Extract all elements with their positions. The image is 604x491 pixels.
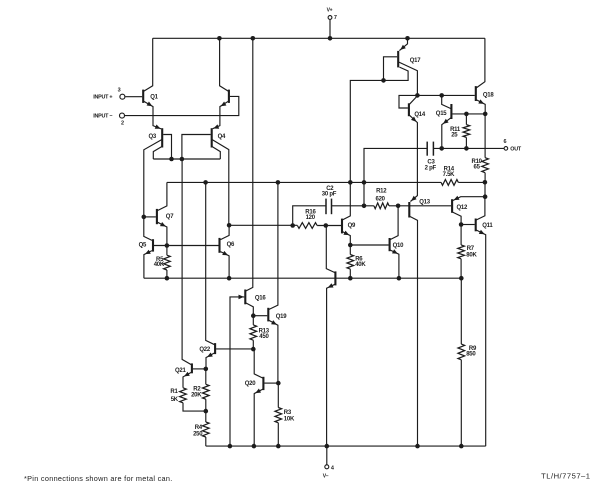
resistor R14	[441, 180, 458, 186]
wire Q16 emitter input loop	[230, 297, 244, 446]
transistor Q11	[475, 219, 477, 232]
terminal V- pin 4	[326, 446, 328, 465]
junction dot top rail / V+ terminal	[328, 36, 333, 41]
wire Q10 collector	[390, 206, 398, 240]
junction dot Q6 emitter / rail278	[227, 276, 232, 281]
wire C2 left branch	[293, 206, 326, 226]
svg-text:V−: V−	[323, 474, 329, 480]
svg-text:TL/H/7757–1: TL/H/7757–1	[541, 472, 590, 481]
wire Q4 base loop	[182, 135, 211, 160]
junction dot R3 / bottom rail	[276, 444, 281, 449]
wire INPUT- to Q2 base	[125, 96, 239, 115]
wire Q6 emitter	[221, 252, 230, 279]
wire Q19 collector to bus	[269, 182, 278, 309]
junction dot Q16 loop / bottom rail	[228, 444, 233, 449]
junction dot Q9 emitter / R6 / Q10 base	[348, 243, 353, 248]
svg-text:C3: C3	[427, 159, 435, 165]
wire Q9 emitter	[343, 232, 351, 245]
junction dot bus / Q9 collector	[348, 180, 353, 185]
svg-text:40K: 40K	[154, 262, 165, 268]
wire Q2 emitter to Q4	[213, 101, 229, 129]
wire Q5/Q6 base wire	[154, 245, 219, 247]
terminal V+ pin 7	[329, 20, 331, 39]
junction dot Q15 emitter / out wire	[439, 146, 444, 151]
wire Q12 collector	[453, 212, 462, 224]
resistor R13	[252, 316, 254, 325]
wire Q13 collector to V- rail	[410, 216, 418, 446]
junction dot R6 / rail278	[348, 276, 353, 281]
wire C3 right to OUT	[433, 147, 504, 149]
wire Q3 base loop	[163, 135, 171, 160]
junction dot R14 right / R10 / Q12 emitter branch	[483, 180, 488, 185]
svg-text:Q18: Q18	[483, 93, 495, 99]
wire V- bottom rail	[206, 445, 486, 447]
junction dot Q19 emitter / Q20 base / R3	[276, 381, 281, 386]
junction dot R5 / rail278	[165, 276, 170, 281]
wire Q21 collector to Q3/Q4 base node	[182, 159, 191, 365]
svg-text:R1: R1	[170, 389, 178, 395]
transistor Q20	[262, 377, 264, 390]
wire Q15 collector	[442, 95, 451, 108]
svg-text:3: 3	[118, 87, 121, 93]
terminal INPUT- pin 2	[120, 113, 125, 118]
resistor R4	[205, 411, 207, 422]
svg-text:R12: R12	[376, 188, 387, 194]
wire Q9 emitter to Q10 base	[350, 244, 388, 246]
resistor R5	[166, 246, 168, 256]
wire Q1 base	[125, 96, 142, 98]
junction dot R16 right / Q9 base / Q8 collector	[324, 223, 329, 228]
svg-text:450: 450	[259, 334, 269, 340]
wire Q8 emitter to V- rail	[327, 284, 335, 446]
wire emitter rail y278	[144, 277, 461, 279]
wire Q14 emitter to Q13	[409, 115, 417, 201]
junction dot Q3 base / y159 rail	[169, 157, 174, 162]
resistor R9	[460, 278, 462, 344]
junction dot Q15 collector / y95 rail	[439, 93, 444, 98]
svg-text:2: 2	[121, 120, 124, 126]
svg-text:Q21: Q21	[175, 368, 187, 374]
svg-text:250: 250	[193, 432, 203, 438]
wire Q9 collector / Q17 base vertical	[343, 80, 384, 220]
svg-text:80K: 80K	[466, 252, 477, 258]
junction dot Q17 collector / y95 rail	[415, 93, 420, 98]
junction dot Q20 emitter / bottom rail	[252, 444, 257, 449]
svg-text:850: 850	[466, 351, 476, 357]
transistor Q13	[408, 202, 410, 218]
svg-text:5K: 5K	[171, 397, 179, 403]
wire Q14 collector	[409, 96, 417, 104]
wire Q18 base rail y95	[399, 95, 475, 108]
wire Q15 emitter	[442, 118, 451, 149]
wire Q18 collector to top rail	[476, 38, 485, 88]
transistor Q15	[450, 104, 452, 119]
capacitor C2 30pF	[325, 199, 327, 215]
wire Q1 emitter to Q3	[144, 101, 162, 129]
svg-text:Q10: Q10	[393, 243, 405, 249]
svg-text:40K: 40K	[355, 262, 366, 268]
resistor R12	[374, 203, 389, 209]
svg-text:Q1: Q1	[150, 94, 158, 100]
wire Q4/Q6 collectors to R16	[229, 224, 297, 226]
svg-text:10K: 10K	[284, 416, 295, 422]
svg-text:6: 6	[504, 139, 507, 145]
wire Q17 second collector loop	[384, 67, 409, 80]
wire R14 node to Q12 emitter node	[484, 182, 486, 196]
wire Q12 emitter	[453, 197, 486, 201]
transistor Q4	[211, 128, 213, 147]
terminal INPUT+ pin 3	[120, 94, 125, 99]
svg-text:65: 65	[474, 165, 481, 171]
wire Q16 emitter	[246, 303, 254, 316]
transistor Q18	[475, 86, 477, 101]
svg-text:Q17: Q17	[410, 58, 422, 64]
junction dot R9 / bottom rail	[459, 444, 464, 449]
junction dot top rail / Q16 collector	[251, 36, 256, 41]
svg-text:20K: 20K	[191, 393, 202, 399]
transistor Q21	[191, 363, 193, 373]
capacitor C3 2pF	[426, 142, 428, 156]
junction dot R11 top / Q15 base	[464, 112, 469, 117]
svg-text:25: 25	[451, 132, 458, 138]
junction dot rail278 / R7 R9	[459, 276, 464, 281]
svg-text:7.5K: 7.5K	[443, 172, 456, 178]
svg-text:Q22: Q22	[199, 347, 211, 353]
transistor Q22	[214, 343, 216, 354]
resistor R3	[277, 383, 279, 407]
svg-text:Q16: Q16	[255, 296, 267, 302]
junction dot R12 left / C3 branch	[362, 204, 367, 209]
wire Q3 inner collector	[153, 147, 161, 159]
wire C2 right to R12 node	[332, 205, 374, 207]
resistor R16	[297, 223, 317, 229]
wire Q17 main collector	[399, 62, 418, 95]
wire Q22 emitter	[206, 353, 215, 369]
wire Q19 base	[253, 315, 267, 317]
terminal OUT pin 6	[504, 147, 508, 151]
wire Q11 base	[461, 224, 475, 226]
wire Q22 base	[216, 348, 253, 350]
junction dot Q13 collector / bottom rail	[415, 444, 420, 449]
wire Q20 emitter to V- rail	[254, 389, 263, 446]
wire Q11 emitter to V- rail	[476, 230, 486, 446]
wire Q16 collector to top rail	[246, 38, 253, 291]
svg-text:Q4: Q4	[218, 134, 226, 140]
junction dot top rail / Q17 emitter	[405, 36, 410, 41]
wire Q18 emitter	[476, 100, 485, 114]
resistor R6	[349, 245, 351, 255]
wire Q7 emitter	[157, 222, 167, 245]
wire Q1 collector to top rail	[144, 38, 153, 91]
junction dot R12 right / Q10 collector / Q13 base	[396, 204, 401, 209]
transistor Q2	[228, 90, 230, 103]
junction dot Q12 emitter / Q11 collector	[483, 194, 488, 199]
svg-text:Q11: Q11	[482, 223, 493, 229]
svg-text:Q19: Q19	[276, 314, 288, 320]
transistor Q17	[397, 51, 399, 68]
transistor Q1	[142, 90, 144, 103]
svg-text:INPUT −: INPUT −	[93, 113, 112, 119]
wire Q2 collector to top rail	[220, 38, 229, 91]
wire Q6 collector	[221, 225, 230, 239]
transistor Q6	[218, 238, 220, 253]
wire Q15 base	[452, 113, 485, 115]
resistor R10	[484, 114, 486, 158]
wire Q11 collector	[476, 197, 485, 220]
transistor Q14	[408, 103, 410, 116]
junction dot R13 / Q22 base / Q20 collector	[251, 347, 256, 352]
transistor Q8 (unlabeled)	[334, 271, 336, 285]
wire Q5 collector	[144, 217, 152, 241]
wire R12 to Q13 Q12 bases	[398, 205, 451, 207]
wire Q17 emitter from top rail	[399, 38, 407, 50]
junction dot R11 bottom / out wire	[464, 146, 469, 151]
svg-text:V+: V+	[327, 8, 333, 14]
svg-text:INPUT +: INPUT +	[93, 94, 112, 100]
transistor Q9	[341, 219, 343, 234]
wire Q4 collector down to Q6 node	[212, 140, 229, 226]
transistor Q3	[161, 128, 163, 147]
resistor R1	[180, 388, 187, 403]
wire Q21 base	[193, 368, 206, 370]
junction dot bus / Q22 collector	[203, 180, 208, 185]
wire Q20 collector	[254, 349, 263, 378]
junction dot Q12 collector / Q11 base / R7	[459, 222, 464, 227]
wire Q3 collector down to Q7 base node	[144, 140, 162, 217]
junction dot V- terminal / bottom rail	[325, 444, 330, 449]
transistor Q12	[451, 199, 453, 213]
wire Q7 collector bus	[167, 181, 441, 183]
svg-text:Q5: Q5	[139, 242, 147, 248]
wire Q7 base	[144, 216, 156, 218]
resistor R11	[465, 114, 467, 125]
svg-text:7: 7	[334, 15, 337, 21]
svg-text:Q14: Q14	[414, 112, 426, 118]
resistor R2	[205, 369, 207, 384]
wire Q22 collector to bus	[206, 182, 215, 344]
wire Q8 collector	[326, 226, 335, 273]
junction dot Q22 emitter / Q21 base / R2	[204, 367, 209, 372]
junction dot Q18 emitter / Q15 base	[483, 112, 488, 117]
svg-text:Q20: Q20	[245, 381, 257, 387]
wire Q19 emitter	[269, 320, 278, 383]
junction dot Q4 coll / Q6 coll node	[227, 223, 232, 228]
wire Q7 collector to bus	[157, 182, 167, 210]
svg-text:Q7: Q7	[166, 214, 174, 220]
svg-text:120: 120	[306, 215, 316, 221]
svg-text:R4: R4	[195, 425, 203, 431]
transistor Q10	[389, 238, 391, 251]
transistor Q16	[244, 290, 246, 305]
svg-text:*Pin connections shown are for: *Pin connections shown are for metal can…	[24, 474, 173, 483]
resistor R7	[460, 225, 462, 245]
svg-text:30 pF: 30 pF	[322, 192, 337, 198]
svg-text:Q3: Q3	[149, 134, 157, 140]
wire Q4 inner collector	[212, 147, 220, 159]
wire Q21 emitter	[183, 372, 191, 388]
wire Q3/Q4 base node rail y159	[153, 158, 220, 160]
wire C3 left branch	[364, 148, 427, 205]
transistor Q19	[267, 308, 269, 322]
svg-text:Q9: Q9	[348, 223, 356, 229]
wire Q17 base loop	[384, 57, 398, 81]
svg-text:Q12: Q12	[457, 205, 469, 211]
wire V+ top rail	[153, 37, 485, 39]
junction dot bus / C3-R12 branch	[362, 180, 367, 185]
junction dot C2 left / R16 left	[290, 223, 295, 228]
svg-text:R3: R3	[284, 410, 292, 416]
junction dot Q10 emitter / rail278	[397, 276, 402, 281]
junction dot R1 R2 R4 node	[204, 409, 209, 414]
transistor Q5	[152, 239, 154, 251]
junction dot Q16 emitter / R13 / Q19 base	[251, 313, 256, 318]
wire Q10 emitter	[390, 250, 399, 278]
junction dot top rail / Q2 collector	[217, 36, 222, 41]
junction dot Q7 emitter / Q5 Q6 bases / R5	[165, 243, 170, 248]
svg-text:620: 620	[376, 196, 386, 202]
junction dot Q4 base, Q21 collector / y159 rail	[180, 157, 185, 162]
junction dot Q17 base node	[381, 78, 386, 83]
svg-text:Q13: Q13	[419, 199, 431, 205]
transistor Q7	[156, 209, 158, 224]
svg-text:Q6: Q6	[227, 242, 235, 248]
svg-text:2 pF: 2 pF	[425, 166, 437, 172]
svg-text:Q15: Q15	[436, 111, 448, 117]
wire Q5 emitter to V- rail	[144, 251, 152, 279]
junction dot bus / Q19 collector	[276, 180, 281, 185]
junction dot Q3/Q5 collectors / Q7 base	[142, 215, 147, 220]
wire Q20 base	[264, 382, 278, 384]
svg-text:OUT: OUT	[510, 147, 522, 153]
svg-text:R7: R7	[467, 246, 475, 252]
